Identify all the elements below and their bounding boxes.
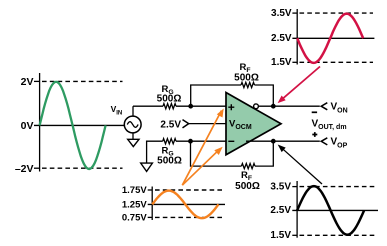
VOCM waveform plot axis (148, 187, 153, 221)
orange arrow to - input (182, 149, 219, 185)
terminal chevron VOP (321, 138, 327, 145)
svg-text:3.5V: 3.5V (270, 181, 291, 192)
svg-text:500Ω: 500Ω (157, 93, 182, 104)
black VOP sine wave (297, 186, 364, 235)
green input sine wave (40, 82, 106, 169)
input waveform plot axis (34, 73, 40, 172)
ground (under VIN source) (128, 139, 139, 146)
svg-text:3.5V: 3.5V (271, 8, 292, 19)
op-amp - input marker (228, 140, 234, 142)
op-amp + input marker (228, 104, 234, 110)
orange VOCM sine wave (152, 191, 218, 219)
VOP waveform plot axis (292, 181, 297, 238)
svg-text:500Ω: 500Ω (157, 156, 182, 167)
wire RG bottom to op-amp - input (176, 140, 228, 142)
1.75V dashed line (155, 189, 222, 191)
red arrow to VON node (282, 67, 321, 100)
red VON sine wave (297, 14, 363, 63)
svg-text:1.75V: 1.75V (122, 185, 147, 196)
orange arrow to + input (182, 111, 221, 186)
svg-text:0V: 0V (21, 120, 34, 132)
node output top (271, 104, 276, 109)
wire VIN source to top rail (132, 106, 134, 116)
resistor RF bottom (241, 164, 255, 169)
3.5V dashed line (VOP plot) (300, 186, 376, 188)
svg-text:2.5V: 2.5V (270, 205, 291, 216)
wire output VON (259, 105, 320, 107)
wire source to ground (132, 133, 134, 139)
plus sign (VOUT polarity) (312, 132, 317, 137)
svg-text:0.75V: 0.75V (122, 213, 147, 224)
2.5V axis line (VOP plot) (292, 209, 378, 211)
-2V dashed line (42, 167, 123, 169)
node B (bottom summing junction) (188, 139, 193, 144)
wire RF top to output node (255, 85, 274, 106)
2V dashed line (42, 80, 123, 82)
terminal chevron VON (321, 103, 327, 110)
1.25V axis line (148, 203, 225, 205)
svg-text:–2V: –2V (15, 163, 34, 175)
1.5V dashed line (VOP plot) (300, 234, 376, 236)
VON waveform plot axis (292, 9, 297, 65)
svg-text:500Ω: 500Ω (235, 181, 260, 192)
wire 2.5V to VOCM pin (189, 123, 226, 125)
svg-text:2.5V: 2.5V (271, 33, 292, 44)
inverting output bubble (254, 104, 259, 109)
svg-text:500Ω: 500Ω (234, 72, 259, 83)
1.5V dashed line (VON plot) (300, 61, 374, 63)
svg-text:2V: 2V (21, 76, 34, 88)
wire feedback bottom (191, 141, 242, 166)
ground (bottom RG input) (141, 163, 153, 171)
wire feedback top (191, 85, 241, 106)
resistor RF top (241, 82, 255, 87)
node A (top summing junction) (188, 104, 193, 109)
wire top rail (133, 105, 163, 107)
resistor RG top (163, 104, 176, 109)
svg-text:1.5V: 1.5V (271, 57, 292, 68)
node output bottom (271, 139, 276, 144)
0V axis line (34, 124, 124, 126)
wire RF bottom to output node (255, 141, 273, 166)
op-amp U1 (fully differential amplifier) (226, 93, 281, 155)
3.5V dashed line (VON plot) (300, 12, 374, 14)
wire output VOP (246, 140, 320, 142)
wire ground to RG bottom (147, 141, 163, 163)
wire RG top to op-amp + input (176, 105, 228, 107)
2.5V axis line (VON plot) (292, 37, 374, 39)
source chevron 2.5V (183, 120, 189, 128)
minus sign (VOUT polarity) (312, 111, 317, 113)
svg-text:2.5V: 2.5V (160, 120, 181, 131)
black arrow to VOP node (282, 148, 322, 184)
svg-text:1.25V: 1.25V (122, 199, 147, 210)
svg-text:1.5V: 1.5V (270, 230, 291, 241)
0.75V dashed line (155, 216, 222, 218)
source VIN (circle with sine) (124, 116, 141, 133)
resistor RG bottom (163, 139, 176, 144)
